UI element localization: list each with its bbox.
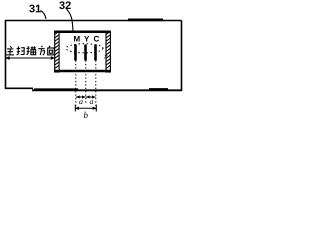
svg-text:32: 32	[59, 0, 71, 12]
char 扫	[17, 46, 25, 54]
carriage 31 outer rectangle: thick bottom right segment	[149, 88, 168, 90]
print head 32 inner box: bottom edge	[54, 70, 111, 73]
leader line for label 32	[67, 9, 74, 31]
dimension a arrows between M and Y	[76, 95, 86, 98]
print head 32 inner box: right hatched edge	[106, 31, 110, 72]
carriage 31 outer rectangle: bottom edge main	[32, 89, 182, 91]
carriage 31 outer rectangle: left edge	[5, 20, 7, 89]
dashed ellipse X around nozzle columns	[66, 44, 103, 53]
carriage 31 outer rectangle: bottom edge left part	[5, 87, 33, 89]
carriage 31 outer rectangle: thick bottom segment	[34, 88, 78, 90]
svg-text:Y: Y	[84, 35, 90, 44]
char 向	[48, 46, 54, 55]
carriage 31 outer rectangle: top edge	[5, 20, 182, 22]
dimension a arrows between Y and C	[86, 95, 96, 98]
char 描	[26, 46, 36, 55]
svg-text:a: a	[79, 97, 83, 106]
char 方	[38, 46, 45, 55]
leader line for label 31	[41, 11, 47, 20]
dimension b line with arrows	[75, 105, 97, 112]
text 主扫描方向 (main scanning direction) hand-drawn strokes	[6, 46, 54, 56]
main-scanning-direction double arrow	[5, 56, 55, 60]
svg-text:x: x	[103, 52, 108, 61]
dotted extension line from column C	[95, 61, 97, 111]
carriage 31 outer rectangle: right edge	[181, 21, 183, 92]
svg-text:31: 31	[29, 3, 41, 15]
carriage 31 outer rectangle: thick top segment	[128, 18, 163, 21]
char 主	[6, 46, 14, 55]
nozzle column C	[94, 45, 97, 61]
svg-text:M: M	[73, 35, 80, 44]
nozzle column Y	[84, 45, 87, 61]
print head 32 inner box: left hatched edge	[55, 31, 59, 72]
nozzle column M	[74, 45, 77, 61]
print head 32 inner box: top edge	[54, 31, 111, 34]
dotted extension line from column Y	[85, 61, 87, 105]
svg-text:C: C	[93, 35, 99, 44]
svg-text:b: b	[83, 110, 88, 120]
dotted extension line from column M	[75, 61, 77, 111]
svg-text:a: a	[89, 97, 93, 106]
